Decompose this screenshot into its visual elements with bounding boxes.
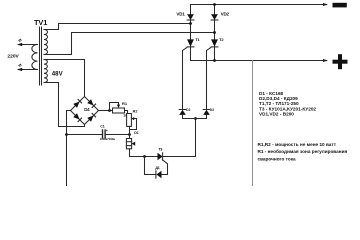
svg-text:TV1: TV1: [34, 18, 47, 27]
label C1 value: [100, 137, 115, 141]
label R2 value: [123, 114, 127, 118]
label 48V: [52, 71, 64, 78]
diode VD1: [187, 14, 194, 20]
wire winding1 bottom tap to node B line: [44, 33, 215, 55]
svg-text:D1: D1: [134, 131, 138, 135]
minus bus arrowhead: [323, 3, 328, 6]
border line right section: [252, 61, 254, 187]
secondary winding 1: [44, 30, 48, 55]
capacitor C1: [103, 130, 106, 138]
wire bridge left corner down to minus rail: [67, 111, 71, 187]
thyristor T2: [211, 39, 218, 47]
label VD2: [221, 11, 230, 16]
svg-text:48V: 48V: [52, 71, 64, 78]
svg-text:сварочного тока: сварочного тока: [258, 156, 297, 161]
junction node A: [189, 22, 192, 25]
svg-text:220V: 220V: [7, 53, 19, 59]
svg-text:VD1,VD2 - В200: VD1,VD2 - В200: [259, 111, 294, 116]
svg-text:R1: R1: [122, 101, 128, 106]
transformer TV1 label: [34, 18, 47, 27]
resistor R2 body: [127, 114, 132, 127]
potentiometer R1 body: [113, 108, 125, 113]
legend parts list: [259, 91, 316, 116]
bridge diode top-left: [73, 99, 81, 107]
junction R1 input: [108, 109, 111, 112]
zener D5: [156, 171, 162, 178]
label D5: [155, 166, 159, 170]
junction T3 anode node: [143, 155, 146, 158]
svg-text:D3: D3: [210, 108, 214, 112]
primary winding 220V: [32, 45, 38, 70]
label T3: [158, 147, 162, 151]
terminal plus symbol: [333, 54, 348, 69]
wire R1 to R2: [125, 111, 130, 114]
svg-text:1к: 1к: [123, 114, 127, 118]
svg-text:VD2: VD2: [221, 11, 230, 16]
wire pulse node riser: [195, 119, 197, 157]
wire T3 cathode to pulse node: [163, 156, 196, 158]
diode D3: [203, 110, 210, 115]
svg-text:VD1: VD1: [176, 11, 185, 16]
junction minus rail / C1 bus: [65, 133, 68, 136]
bridge diode bottom-right: [87, 113, 95, 121]
wire plus bus: [191, 60, 327, 62]
thyristor T3 gate wire: [163, 160, 168, 175]
label C1: [100, 125, 108, 134]
transformer core: [40, 27, 42, 85]
junction plus bus T2: [213, 59, 216, 62]
label D4: [84, 107, 90, 112]
wire T1 gate riser: [183, 47, 188, 109]
wire R2 bottom lead: [129, 126, 131, 134]
wire C1 bus left segment: [67, 134, 103, 136]
svg-text:Т1: Т1: [195, 37, 200, 42]
potentiometer R1 wiper loop: [110, 103, 121, 111]
wire primary bottom lead: [19, 69, 38, 71]
wire winding2 top tap to bridge top: [44, 60, 85, 97]
label T2: [219, 37, 224, 42]
junction R2 bottom node: [128, 133, 131, 136]
wire winding2 bottom tap to bridge bottom: [44, 83, 85, 127]
input arrow bottom: [17, 64, 22, 72]
svg-text:D4: D4: [84, 107, 90, 112]
label R2: [133, 109, 138, 113]
svg-text:R1,R2 - мощность не мене 10 ва: R1,R2 - мощность не мене 10 ватт: [258, 142, 337, 147]
wire primary top lead: [19, 44, 38, 46]
diode bridge D4 frame: [71, 97, 99, 125]
zener D5 loop wires: [145, 157, 168, 175]
thyristor T3: [158, 153, 163, 160]
svg-text:D2: D2: [186, 108, 190, 112]
svg-text:R2: R2: [133, 109, 138, 113]
diode D2: [179, 110, 186, 115]
svg-text:C1: C1: [100, 125, 105, 129]
label D3: [210, 108, 214, 112]
note R1 R2 power: [258, 142, 348, 162]
wire D1 to T3 anode rail: [130, 149, 158, 157]
svg-text:Д1: Д1: [155, 166, 159, 170]
label R1: [122, 101, 128, 106]
svg-text:R1 - необходимая зона регулиро: R1 - необходимая зона регулирования: [258, 148, 348, 154]
bridge diode top-right: [87, 99, 95, 107]
svg-text:Т3: Т3: [158, 147, 162, 151]
junction node B: [213, 31, 216, 34]
thyristor T1: [187, 39, 194, 47]
wire C1 bus right segment: [105, 134, 129, 136]
wire VD2-T2 column: [214, 5, 216, 61]
svg-text:+: +: [106, 129, 108, 133]
diode VD2: [211, 14, 218, 20]
zener D1 stack: [126, 135, 135, 149]
terminal minus symbol: [333, 3, 347, 8]
wire T2 gate riser: [207, 47, 212, 109]
wire VD1-T1 column: [190, 5, 192, 61]
svg-text:100мк*160в: 100мк*160в: [100, 137, 115, 141]
junction minus bus VD2: [213, 3, 216, 6]
wire winding1 top tap to node A line: [44, 24, 191, 30]
label VD1: [176, 11, 185, 16]
wire gate diode bus: [183, 115, 207, 119]
plus bus arrowhead: [323, 59, 328, 62]
svg-text:Т2: Т2: [219, 37, 224, 42]
label T1: [195, 37, 200, 42]
wire minus bus: [191, 4, 327, 6]
input arrow top: [17, 39, 22, 47]
label node D1: [134, 131, 138, 135]
label D2: [186, 108, 190, 112]
resistor R2 wiper: [130, 117, 137, 130]
secondary winding 2 (48V): [44, 60, 47, 83]
bridge diode bottom-left: [73, 113, 81, 121]
wire bridge right corner to R1 node: [99, 110, 113, 112]
label 220V: [7, 53, 19, 59]
junction pulse bus: [194, 117, 197, 120]
